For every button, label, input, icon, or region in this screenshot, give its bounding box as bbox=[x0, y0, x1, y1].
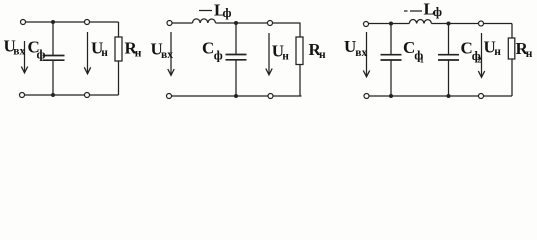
svg-text:н: н bbox=[526, 48, 533, 60]
svg-text:1: 1 bbox=[420, 55, 424, 65]
svg-text:2: 2 bbox=[477, 55, 481, 65]
svg-text:н: н bbox=[135, 48, 142, 60]
svg-text:н: н bbox=[282, 51, 289, 63]
svg-text:ф: ф bbox=[433, 4, 442, 19]
svg-text:вх: вх bbox=[13, 46, 25, 58]
svg-text:вх: вх bbox=[161, 49, 173, 61]
svg-text:вх: вх bbox=[355, 47, 367, 59]
svg-text:н: н bbox=[494, 46, 501, 58]
svg-text:н: н bbox=[101, 47, 108, 59]
svg-text:н: н bbox=[319, 49, 326, 61]
svg-text:ф: ф bbox=[223, 5, 232, 20]
svg-text:ф: ф bbox=[214, 48, 223, 63]
svg-text:ф: ф bbox=[37, 47, 46, 62]
svg-text:C: C bbox=[202, 39, 214, 58]
